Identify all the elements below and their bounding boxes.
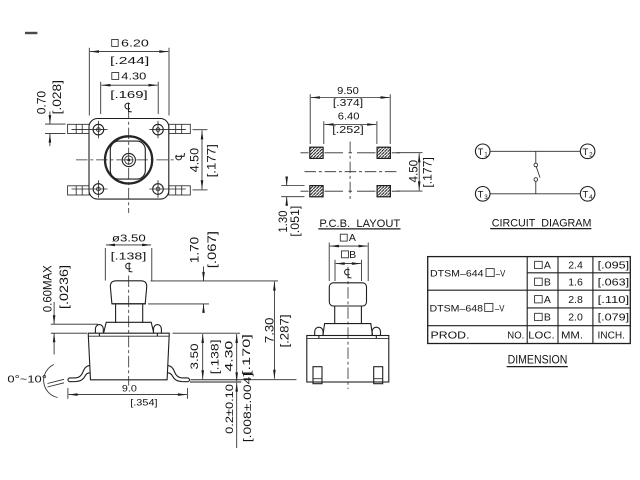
vertical centerline <box>128 108 130 214</box>
corner boss bottom-left <box>72 180 108 197</box>
switch contact lower <box>534 178 538 182</box>
pad bottom-left <box>310 186 323 197</box>
flange ear right <box>154 325 162 337</box>
svg-text:A: A <box>544 294 551 306</box>
svg-text:[.008±.004]: [.008±.004] <box>242 373 254 442</box>
terminal T2 <box>580 144 595 159</box>
svg-text:B: B <box>544 276 551 288</box>
centerline bottom pad row <box>301 190 401 192</box>
dim B extension lines <box>334 260 336 281</box>
angle arc 0-10 deg <box>44 365 58 398</box>
svg-text:DIMENSION: DIMENSION <box>508 353 568 367</box>
corner boss bottom-right <box>149 180 186 197</box>
title underline <box>318 228 400 230</box>
corner boss top-left <box>72 121 108 138</box>
svg-text:A: A <box>544 260 551 272</box>
svg-text:–V: –V <box>495 303 505 314</box>
seating plane line thin <box>191 379 297 381</box>
switch body side <box>307 336 389 383</box>
dim 0.60MAX extension lines <box>51 323 98 325</box>
svg-text:A: A <box>349 232 356 244</box>
svg-text:6.40: 6.40 <box>338 112 360 123</box>
dim line A <box>330 245 368 247</box>
svg-text:[.138]: [.138] <box>209 340 221 375</box>
table horizontal lines <box>428 273 631 326</box>
svg-text:B: B <box>544 312 551 324</box>
dim 0.2 arrow up <box>236 383 238 448</box>
svg-text:T: T <box>582 147 588 158</box>
centerline symbol top <box>125 103 132 112</box>
front centerline <box>128 276 130 386</box>
foot left <box>313 367 322 384</box>
svg-text:2.0: 2.0 <box>568 312 583 324</box>
side centerline <box>347 267 349 389</box>
svg-text:2.8: 2.8 <box>568 294 583 306</box>
cell square 644 <box>486 269 494 277</box>
svg-text:4.50: 4.50 <box>187 148 201 173</box>
svg-text:[.067]: [.067] <box>205 231 219 268</box>
table outer frame <box>428 257 631 344</box>
svg-text:[.252]: [.252] <box>332 125 364 136</box>
dim 9.0 extension ticks <box>67 388 69 399</box>
terminal T4 <box>580 187 595 202</box>
button cap side <box>329 283 366 306</box>
svg-text:T: T <box>582 190 588 201</box>
label square 6.20 <box>112 40 119 47</box>
horizontal middle centerline <box>305 171 397 173</box>
body seam side <box>307 337 389 339</box>
dim line diameter 3.50 <box>106 244 151 246</box>
svg-text:DTSM–648: DTSM–648 <box>430 303 484 314</box>
lead pin bottom-left <box>68 186 90 195</box>
switch stub upper <box>535 151 537 163</box>
loc A2 square <box>535 296 543 303</box>
wire T1-T2 <box>490 150 580 152</box>
table vertical lines <box>527 257 593 344</box>
dim line 9.50 <box>311 97 390 99</box>
svg-text:T: T <box>478 147 484 158</box>
dim 6.20 extension lines <box>88 48 90 116</box>
dim line 4.30 <box>236 334 238 381</box>
pad top-left <box>310 147 323 158</box>
dim line 3.50 <box>202 334 204 379</box>
dim 6.40 extension lines <box>323 121 325 144</box>
svg-text:[.354]: [.354] <box>130 398 157 409</box>
svg-text:7.30: 7.30 <box>262 317 276 343</box>
svg-text:[.244]: [.244] <box>110 55 149 67</box>
flange ear right side <box>372 327 380 338</box>
label square B <box>342 251 349 258</box>
svg-text:4: 4 <box>589 194 593 201</box>
title underline <box>490 228 591 230</box>
svg-text:[.0236]: [.0236] <box>57 265 71 309</box>
dim 1.70 arrows <box>203 267 205 281</box>
foot right <box>374 367 383 384</box>
lead pin bottom-right <box>169 186 191 195</box>
center stem rings <box>122 153 135 166</box>
dim A extension lines <box>328 243 330 282</box>
centerline symbol front <box>126 263 133 272</box>
dim line 4.50 pcb <box>418 153 420 190</box>
button cap front <box>110 281 146 304</box>
svg-text:0°~10°: 0°~10° <box>7 373 47 385</box>
svg-text:4.30: 4.30 <box>121 70 146 82</box>
svg-text:3: 3 <box>484 194 488 201</box>
switch contact upper <box>534 163 538 167</box>
gull-wing lead right <box>167 366 189 382</box>
dim 0.70 extension lines <box>45 123 66 125</box>
dim 0.60MAX arrows <box>53 302 55 324</box>
svg-text:[.051]: [.051] <box>288 206 302 237</box>
svg-text:0.2±0.10: 0.2±0.10 <box>224 384 236 434</box>
horizontal centerline <box>76 159 176 161</box>
dim 1.30 arrows <box>286 178 288 186</box>
gull-wing lead left <box>68 366 90 382</box>
svg-text:0.60MAX: 0.60MAX <box>41 265 55 312</box>
svg-text:[.079]: [.079] <box>598 312 630 324</box>
svg-text:9.0: 9.0 <box>122 384 137 395</box>
svg-text:[.138]: [.138] <box>111 251 147 262</box>
svg-text:B: B <box>349 249 356 261</box>
svg-text:NO.: NO. <box>507 330 524 342</box>
stray mark top-left <box>25 32 37 34</box>
cell square 648 <box>485 303 493 311</box>
seating plane line gray <box>190 381 241 383</box>
svg-text:1.70: 1.70 <box>187 236 201 263</box>
dim line B <box>336 263 361 265</box>
label square A <box>340 234 347 241</box>
svg-text:2.4: 2.4 <box>568 260 583 272</box>
terminal T1 <box>475 144 490 159</box>
switch body top view outline <box>89 119 169 200</box>
center button outer circle <box>105 136 152 183</box>
dim 1.30 extension lines <box>281 185 304 187</box>
svg-text:ø3.50: ø3.50 <box>112 233 146 244</box>
dim 3.50/4.30 top extension line <box>173 332 241 334</box>
dim line 4.30 <box>101 84 157 86</box>
wire T3-T4 <box>490 193 580 195</box>
svg-text:[.169]: [.169] <box>110 89 148 101</box>
lead pin top-left <box>68 124 90 133</box>
svg-text:[.095]: [.095] <box>598 260 630 272</box>
svg-text:DTSM–644: DTSM–644 <box>430 269 484 280</box>
dim line 9.0 <box>69 394 187 396</box>
dim line 7.30 <box>273 282 275 379</box>
flange ear left side <box>315 327 323 338</box>
dim 9.50 extension lines <box>309 94 311 144</box>
dim 4.50 extension lines <box>397 152 423 154</box>
angle tick lines <box>48 379 65 387</box>
title underline <box>507 366 568 368</box>
inner rounded square <box>110 141 145 179</box>
body seam line <box>88 335 169 337</box>
svg-text:[.063]: [.063] <box>598 276 630 288</box>
svg-text:9.50: 9.50 <box>337 86 359 97</box>
dim 4.50 extension lines <box>193 129 208 131</box>
dim line 6.40 <box>325 124 377 126</box>
dim diameter 3.50 extension lines <box>104 248 106 281</box>
svg-text:T: T <box>478 190 484 201</box>
svg-text:0.70: 0.70 <box>35 91 49 115</box>
centerline top pad row <box>301 152 401 154</box>
pad bottom-right <box>377 186 390 197</box>
svg-text:6.20: 6.20 <box>121 37 149 49</box>
svg-text:MM.: MM. <box>561 330 583 342</box>
svg-text:[.110]: [.110] <box>598 294 630 306</box>
loc B1 square <box>535 278 543 285</box>
centerline symbol right (rotated) <box>175 153 184 160</box>
cover flange front <box>104 322 154 333</box>
svg-text:1: 1 <box>484 152 488 159</box>
switch body front <box>88 333 169 380</box>
svg-text:4.30: 4.30 <box>224 341 236 372</box>
svg-text:1.6: 1.6 <box>568 276 583 288</box>
centerline symbol side <box>345 269 352 278</box>
vertical centerline <box>349 142 351 202</box>
dim 0.70 arrows <box>49 112 51 125</box>
label square 4.30 <box>112 73 119 80</box>
svg-text:CIRCUIT DIAGRAM: CIRCUIT DIAGRAM <box>492 218 592 230</box>
svg-text:[.287]: [.287] <box>277 314 291 347</box>
terminal T3 <box>475 187 490 202</box>
svg-text:INCH.: INCH. <box>598 330 626 342</box>
lead pin top-right <box>169 124 191 133</box>
svg-text:P.C.B. LAYOUT: P.C.B. LAYOUT <box>319 218 400 230</box>
svg-text:[.374]: [.374] <box>333 98 364 109</box>
svg-text:[.177]: [.177] <box>421 157 435 188</box>
loc A1 square <box>535 261 543 268</box>
loc B2 square <box>535 313 543 320</box>
svg-text:4.50: 4.50 <box>406 160 420 183</box>
svg-text:–V: –V <box>496 269 506 280</box>
button stem side <box>335 306 362 324</box>
dim 4.30 extension lines <box>100 82 102 114</box>
svg-text:[.028]: [.028] <box>50 80 64 114</box>
svg-text:[.177]: [.177] <box>205 144 219 177</box>
flange ear left <box>95 325 103 337</box>
cover flange side <box>323 324 373 336</box>
svg-text:LOC.: LOC. <box>528 330 554 342</box>
svg-text:3.50: 3.50 <box>189 344 201 370</box>
dim line 4.50 <box>201 130 203 189</box>
pad top-right <box>377 147 390 158</box>
svg-text:PROD.: PROD. <box>431 330 470 342</box>
dim 1.70 extension lines <box>151 280 278 282</box>
switch blade <box>536 167 540 178</box>
switch stub lower <box>535 181 537 194</box>
dim line 6.20 <box>90 51 168 53</box>
button stem front <box>112 304 146 323</box>
svg-text:2: 2 <box>589 152 593 159</box>
corner boss top-right <box>149 121 186 138</box>
svg-text:[.170]: [.170] <box>241 334 253 375</box>
